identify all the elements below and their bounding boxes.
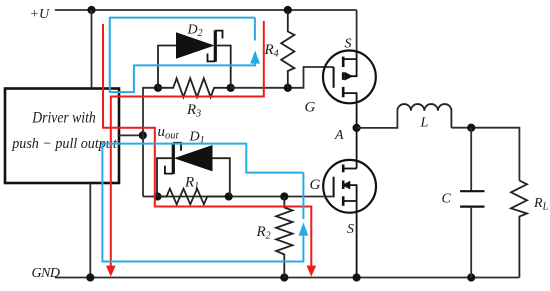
node dot: R4 bottom bbox=[284, 84, 292, 92]
wire: driver supply drop from +U rail to driver box bbox=[91, 10, 93, 89]
lower MOSFET channel dashes bbox=[342, 165, 345, 173]
cyan loop 1 main path bbox=[110, 18, 255, 93]
svg-text:Driver with: Driver with bbox=[31, 110, 95, 127]
node dot: R2 top bbox=[280, 192, 288, 200]
svg-text:L: L bbox=[420, 116, 429, 131]
cyan loop 1 arrowhead pointing up bbox=[250, 50, 260, 63]
diode D2 cathode branch wire bbox=[217, 46, 231, 88]
upper MOSFET channel dashes bbox=[342, 57, 345, 67]
lower MOSFET Q2 circle bbox=[323, 160, 376, 213]
svg-text:GND: GND bbox=[32, 266, 60, 281]
lower MOSFET gate bar bbox=[333, 177, 335, 198]
cyan current loop 2 (lower): main path bbox=[102, 144, 303, 262]
upper MOSFET gate bar bbox=[333, 67, 335, 88]
red arrowhead path A into GND bbox=[307, 266, 317, 277]
svg-text:C: C bbox=[442, 192, 452, 207]
wire: driver ground drop from box to GND rail bbox=[89, 183, 91, 278]
cyan loop 2 arrowhead pointing up near R2 bbox=[299, 222, 309, 235]
diode D2 schottky top hook bbox=[215, 31, 222, 39]
+U top rail wire bbox=[55, 9, 357, 11]
svg-text:G: G bbox=[305, 100, 316, 116]
svg-text:G: G bbox=[310, 177, 321, 193]
diode D2 triangle bbox=[177, 33, 214, 58]
svg-text:S: S bbox=[345, 37, 352, 52]
junction dot: GND / C bottom bbox=[467, 273, 475, 281]
junction dot: +U rail / driver supply bbox=[87, 6, 95, 14]
red arrowhead path B into GND bbox=[106, 266, 116, 277]
wire: inductor to C node to RL top bbox=[451, 128, 519, 181]
wire: C top lead bbox=[470, 128, 472, 192]
junction dot: u_out node bbox=[139, 131, 147, 139]
junction dot: GND / driver ground bbox=[86, 273, 94, 281]
lower MOSFET drain stub bbox=[343, 168, 356, 170]
wire: R3 right to R4 bottom and up to upper gate bbox=[231, 67, 334, 88]
node dot: R1 right / D1 anode bbox=[225, 192, 233, 200]
node dot: R1 left / D1 cathode bbox=[153, 192, 161, 200]
lower MOSFET body tie and stub bbox=[350, 185, 357, 201]
diode D1 triangle bbox=[176, 146, 213, 171]
svg-text:S: S bbox=[347, 222, 354, 237]
resistor R4 bbox=[281, 10, 294, 88]
resistor R2 bbox=[276, 197, 292, 278]
node A dot bbox=[353, 124, 361, 132]
node dot: R3 left / D2 anode bbox=[154, 84, 162, 92]
diode D2 anode branch wire bbox=[158, 46, 177, 88]
diode D2 schottky cathode bar bbox=[214, 30, 217, 61]
wire: u_out vertical branch up to R3 row and down to R1 row bbox=[143, 88, 158, 197]
cyan current loop 1 (upper): segment with up arrow near D2 cathode bbox=[254, 18, 256, 41]
red current path A: driver sourcing loop bbox=[103, 24, 311, 266]
capacitor C bottom plate bbox=[460, 206, 484, 208]
upper MOSFET drain stub and lead to node A bbox=[343, 93, 356, 128]
junction dot: GND / R2 bottom bbox=[280, 273, 288, 281]
diode D1 anode branch wire bbox=[212, 158, 230, 196]
diode D1 schottky bottom hook bbox=[165, 166, 173, 174]
resistor R1 bbox=[158, 189, 229, 205]
resistor R3 bbox=[158, 78, 231, 97]
capacitor C top plate bbox=[460, 190, 484, 192]
junction dot: +U rail / R4 top bbox=[284, 6, 292, 14]
diode D1 schottky top hook bbox=[173, 143, 181, 151]
wire: u_out output from driver box bbox=[119, 134, 143, 136]
wire: gate row from R1 right to lower MOSFET gate bbox=[158, 196, 334, 198]
lower MOSFET body arrow (points left, n-channel) bbox=[342, 181, 351, 190]
wire: top rail corner down to upper MOSFET source bbox=[356, 10, 358, 52]
resistor RL bbox=[511, 181, 527, 278]
upper MOSFET source stub and lead bbox=[343, 52, 356, 59]
svg-text:+U: +U bbox=[30, 7, 50, 22]
junction dot: L / C node bbox=[467, 124, 475, 132]
inductor L bbox=[397, 104, 451, 128]
GND rail wire bbox=[55, 277, 520, 279]
diode D1 cathode branch wire bbox=[157, 158, 172, 196]
driver box bbox=[5, 89, 119, 184]
diode D1 schottky cathode bar bbox=[172, 143, 175, 174]
lower MOSFET source stub and lead to GND bbox=[343, 201, 356, 278]
node dot: R3 right / D2 cathode bbox=[227, 84, 235, 92]
svg-text:A: A bbox=[334, 128, 344, 143]
junction dot: GND / lower MOSFET source bbox=[353, 273, 361, 281]
wire: node A to inductor bbox=[357, 111, 398, 128]
wire: C bottom lead to GND bbox=[470, 207, 472, 278]
upper MOSFET body arrow (points right, p-channel) bbox=[345, 72, 354, 81]
red current path B: R4 sinking loop bbox=[111, 21, 264, 266]
diode D2 schottky bottom hook bbox=[208, 54, 216, 62]
wire: node A down to lower MOSFET drain bbox=[356, 128, 358, 169]
upper MOSFET body tie bbox=[351, 59, 357, 76]
upper MOSFET Q1 circle bbox=[323, 51, 376, 104]
